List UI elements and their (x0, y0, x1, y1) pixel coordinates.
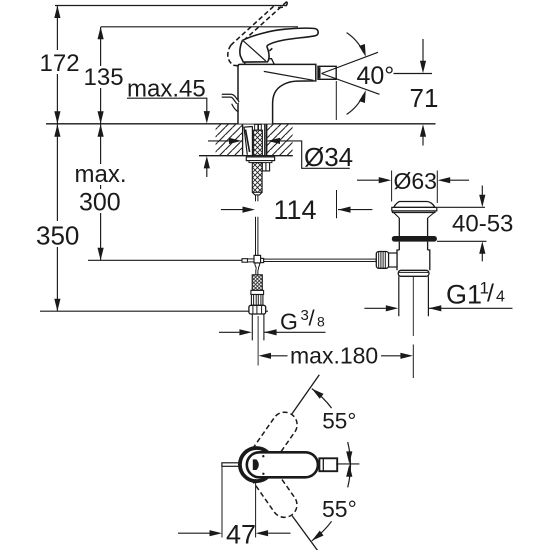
mounting washer plates (246, 157, 274, 161)
horizontal pop-up rod to waste (264, 259, 377, 261)
flange taper (394, 213, 435, 219)
adjuster knurled knob (376, 252, 388, 269)
hose hex section (251, 295, 263, 306)
pop-up waste: Ø63 extension lines (391, 171, 393, 202)
55 deg lower leg (292, 516, 318, 550)
svg-text:Ø34: Ø34 (304, 142, 353, 172)
svg-text:71: 71 (410, 83, 439, 113)
counter bottom surface line (199, 155, 293, 157)
svg-text:8: 8 (317, 314, 325, 330)
svg-text:55°: 55° (322, 409, 356, 434)
lever pill (top view) (247, 452, 318, 477)
counter hatch left block (216, 124, 243, 155)
rod piece to hose (256, 270, 258, 275)
svg-text:/: / (487, 280, 494, 308)
pop-up vertical rod lower piece (256, 217, 258, 256)
max.180 dimension (259, 353, 272, 359)
waste push knob dome (394, 202, 435, 208)
114 extension line (336, 190, 338, 218)
dashed raised lever neck (228, 45, 243, 66)
cartridge D-mark (253, 459, 259, 470)
svg-text:4: 4 (496, 289, 505, 306)
mounting hole left edge (242, 124, 244, 155)
shank rod top pieces (255, 124, 258, 130)
cross fitting right connector (261, 258, 264, 262)
rod guide bracket (262, 163, 269, 171)
G1 1/4 leader (429, 307, 513, 309)
max.180 right extension line (412, 345, 414, 379)
waste centerline (412, 277, 414, 336)
white pads behind texts crossing dim lines (34, 50, 130, 247)
vertical dimension line 135/max300 (100, 27, 102, 260)
waste cylinder below ring (399, 242, 427, 250)
lever base cap (244, 59, 274, 65)
40 deg spray lines (322, 33, 433, 115)
lever handle (242, 28, 318, 46)
pop-up rod knob at rear (222, 96, 238, 103)
G3/8 thread tails (252, 314, 264, 340)
svg-text:max.: max. (75, 161, 127, 188)
svg-text:114: 114 (274, 195, 317, 225)
55 deg arcs upper (312, 389, 332, 409)
svg-text:135: 135 (84, 64, 124, 91)
aerator dark insert (318, 67, 320, 78)
svg-text:/: / (309, 306, 316, 331)
lever neck (240, 41, 269, 63)
spout inner line (264, 71, 314, 80)
pop-up rod (top view) (222, 463, 242, 467)
waste lower body (397, 250, 430, 270)
svg-text:G: G (280, 309, 298, 335)
arrowheads for vertical dims (54, 6, 60, 19)
71 dimension (422, 39, 424, 62)
shank taper bottom (252, 192, 262, 195)
G3/8 dimension arrows (219, 331, 239, 333)
waste washer (398, 270, 429, 276)
47 dimension (221, 467, 223, 538)
dimension line max.300 bottom (88, 259, 244, 261)
40 deg leader line (394, 73, 433, 75)
svg-text:55°: 55° (322, 496, 357, 522)
dimension line 350 bottom (40, 310, 268, 312)
dashed lever pill swung down 55 (241, 450, 302, 523)
svg-text:40°: 40° (357, 62, 395, 90)
cross fitting block (254, 255, 261, 263)
40 deg upper arc (347, 33, 364, 53)
threaded shank upper (in hole) (254, 130, 263, 155)
center extension line below hose (257, 316, 259, 366)
svg-text:G1: G1 (446, 280, 482, 310)
seal ring (solid) (392, 236, 437, 242)
pop-up vertical rod upper piece (256, 195, 258, 201)
svg-text:max.45: max.45 (127, 76, 206, 103)
cross fitting left stub (242, 259, 248, 263)
body circle (bold) (240, 448, 273, 481)
dashed lever pill swung up 55 (241, 407, 302, 522)
small curve below knob (232, 104, 238, 112)
max.45 lower stub (206, 168, 208, 177)
Ø34 leader with arrows (208, 140, 230, 142)
counter top surface line (46, 123, 436, 125)
55 deg arcs lower (348, 465, 351, 488)
svg-text:max.180: max.180 (290, 343, 378, 369)
hose end nut (249, 305, 266, 314)
40 deg lower arc (347, 95, 364, 115)
55 deg upper leg (292, 375, 319, 414)
adjuster connector (389, 253, 397, 267)
shank wedge in hole (244, 126, 252, 155)
braided supply hose (252, 275, 262, 291)
hole inner right line (264, 124, 266, 155)
max.45 arrows (204, 111, 210, 124)
waste tailpipe (399, 276, 429, 316)
svg-text:40-53: 40-53 (452, 211, 513, 238)
aerator block (318, 66, 336, 79)
40-53 dimension (437, 206, 485, 208)
vertical dimension line 172/350 (56, 6, 58, 312)
svg-text:172: 172 (40, 50, 80, 77)
top reference line (172 level) (55, 5, 286, 7)
aerator extension line (335, 81, 337, 120)
threaded shank lower (252, 163, 262, 193)
waste top flange (392, 207, 437, 212)
max.45 underline and drop line (127, 98, 207, 112)
waste upper cylinder (399, 218, 427, 236)
svg-text:300: 300 (79, 189, 121, 217)
114 dimension (221, 209, 243, 211)
dashed raised lever handle (228, 2, 287, 67)
centerline (336, 463, 359, 465)
lever neck inner line (243, 40, 266, 61)
mounting hole right edge (265, 124, 267, 155)
nub below cross (255, 263, 260, 270)
Ø63 dimension arrows (357, 179, 379, 181)
second reference line (135 level) (101, 26, 298, 28)
aerator (top view) (319, 458, 337, 471)
hose fitting (251, 290, 264, 294)
svg-text:350: 350 (36, 221, 79, 251)
index dots (262, 455, 264, 457)
counter hatch right block (266, 124, 292, 155)
svg-text:Ø63: Ø63 (394, 168, 437, 194)
faucet body (238, 64, 316, 123)
svg-text:47: 47 (226, 520, 256, 550)
dashed inner lever edge (245, 39, 272, 54)
